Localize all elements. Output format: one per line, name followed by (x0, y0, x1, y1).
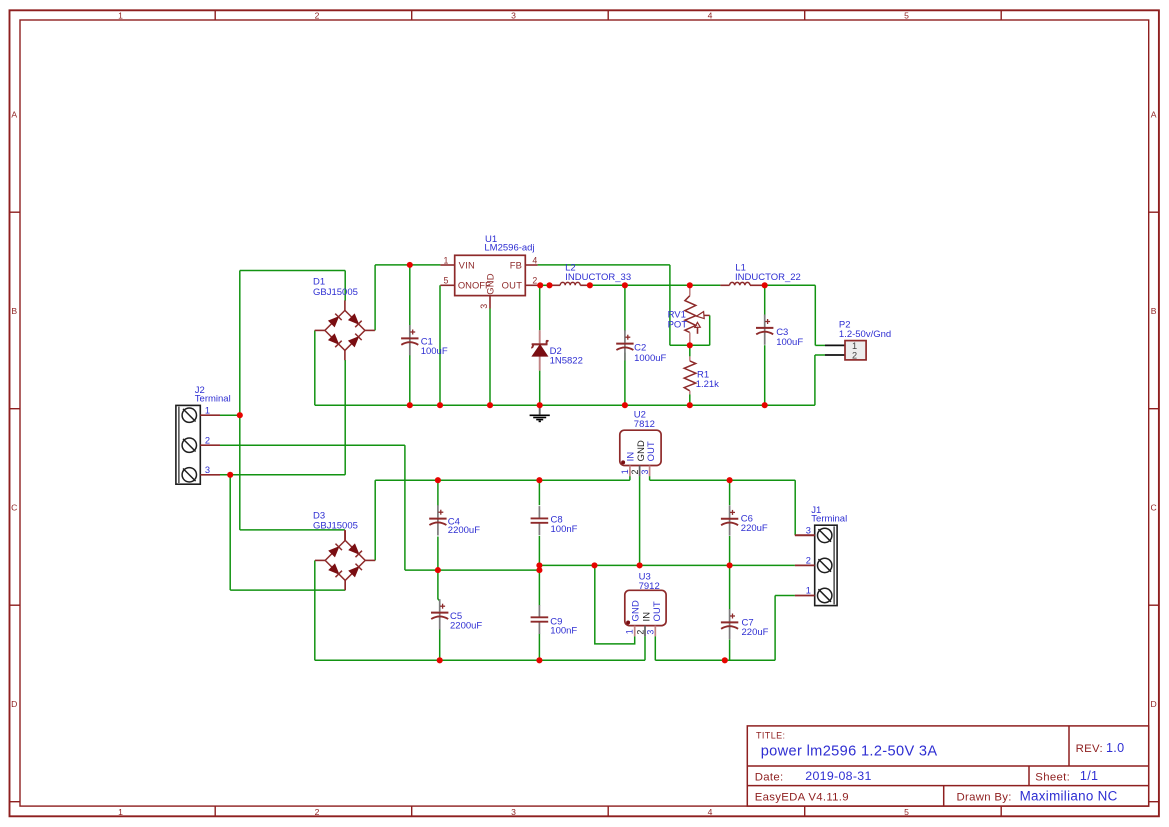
wire J2 pin1 to node (220, 414, 240, 416)
wire FB vertical (669, 265, 671, 345)
svg-text:OUT: OUT (645, 441, 656, 461)
wire C1 branch (409, 265, 411, 405)
svg-text:2: 2 (205, 435, 210, 445)
bridge D1 diode bottom-left (329, 334, 339, 344)
bridge D1 diode top-left (329, 317, 339, 327)
regulator U2 pin 2 stub (639, 466, 641, 477)
svg-text:1/1: 1/1 (1080, 769, 1098, 783)
title block frame (747, 726, 1148, 806)
svg-text:100uF: 100uF (421, 346, 448, 357)
capacitor C1 plates (401, 337, 418, 339)
wire AC2 branch down (229, 475, 231, 590)
capacitor C9 plates (531, 616, 549, 618)
capacitor C6 pins (729, 505, 731, 518)
wire AC1 run to D3 top (240, 529, 345, 531)
connector J2 screw 3 (182, 468, 196, 482)
wire C6 branch (729, 480, 731, 505)
wire D3 minus down (314, 560, 316, 660)
connector J1 pin stub redraw pin3 (795, 534, 815, 536)
wire U2 pin2 ground drop (639, 476, 641, 565)
svg-text:Terminal: Terminal (195, 394, 231, 405)
capacitor C5 pins (439, 599, 441, 612)
svg-text:100uF: 100uF (776, 337, 803, 348)
svg-text:POT: POT (668, 319, 688, 330)
svg-text:4: 4 (532, 255, 537, 265)
junction dot pot bottom node (687, 342, 693, 348)
wire negative rail right segment (655, 659, 775, 661)
resistor R1 upper pin (689, 356, 691, 361)
wire AC1 vertical bus (239, 271, 241, 530)
wire OUT switch node (538, 284, 550, 286)
svg-text:1: 1 (625, 629, 635, 634)
capacitor C2 pins (624, 330, 626, 343)
bridge D1 diode top-right (349, 314, 359, 324)
svg-text:A: A (1151, 109, 1157, 119)
wire FB feedback run (538, 264, 670, 266)
svg-text:5: 5 (443, 275, 448, 285)
wire VIN rail (375, 264, 440, 266)
wire U3 pin1 ground loop (595, 565, 635, 644)
wire U1 GND pin3 to ground (489, 309, 491, 406)
bridge D3 diode top-left (329, 547, 339, 557)
connector J1 body (815, 525, 837, 605)
svg-text:3: 3 (205, 465, 210, 475)
wire +12V down to J1 pin3 (794, 480, 796, 535)
capacitor C7 plates (721, 621, 738, 623)
svg-text:GBJ15005: GBJ15005 (313, 287, 358, 298)
regulator U2 pin 3 stub (649, 466, 651, 477)
wire C3 branch lower (764, 345, 766, 405)
svg-text:B: B (1151, 306, 1157, 316)
svg-text:2: 2 (806, 556, 811, 566)
svg-text:D: D (11, 699, 17, 709)
bridge D3 diode bottom-right (349, 567, 359, 577)
sheet zone column numbers bottom (118, 807, 909, 817)
wire J1 pin1 riser (774, 596, 776, 661)
junction dots output switch node (537, 282, 543, 288)
potentiometer RV1 wiper arrow (704, 314, 710, 316)
connector J2 pin 2 stub (200, 444, 220, 446)
svg-text:Drawn By:: Drawn By: (957, 792, 1012, 804)
U1 pin 3 stub (489, 296, 491, 309)
svg-text:IN: IN (640, 612, 651, 622)
IC U1 LM2596 body (455, 255, 526, 295)
wire U3 pin2 to negative rail (644, 636, 646, 660)
junction dots ground rail (407, 402, 413, 408)
sheet zone column numbers top (118, 11, 909, 21)
capacitor C3 pins (764, 315, 766, 328)
junction dot J2 pin1 node (237, 412, 243, 418)
wire J2 pin2 drop to 0V rail (404, 445, 406, 570)
capacitor C4 plus sign (438, 511, 443, 513)
wire 0V rail right segment (539, 564, 795, 566)
wire C5 branch with jog (438, 570, 440, 602)
wire U3 pin3 down (654, 636, 656, 660)
connector J2 pin 1 stub (200, 414, 220, 416)
capacitor C8 plates (531, 517, 549, 519)
bridge D1 diode bottom-right (349, 337, 359, 347)
svg-text:Sheet:: Sheet: (1035, 771, 1070, 783)
svg-text:INDUCTOR_33: INDUCTOR_33 (565, 272, 631, 283)
svg-text:2: 2 (532, 275, 537, 285)
svg-text:1: 1 (118, 807, 123, 817)
wire D2 branch lower (539, 371, 541, 406)
svg-text:1: 1 (620, 469, 630, 474)
capacitor C7 plus sign (730, 615, 735, 617)
svg-text:GND: GND (629, 600, 640, 621)
connector P2 pin lines (825, 344, 845, 346)
potentiometer RV1 adjust arrow (697, 327, 699, 334)
svg-text:5: 5 (904, 807, 909, 817)
wire bend into U2 pin1 (629, 476, 631, 480)
svg-text:FB: FB (510, 259, 522, 270)
diode D2 schottky cathode bar (531, 341, 548, 348)
svg-text:OUT: OUT (502, 280, 523, 291)
capacitor C2 plates (616, 343, 633, 345)
wire C3 branch upper (764, 285, 766, 315)
U1 pin 5 stub (440, 284, 454, 286)
capacitor C9 pins (538, 605, 540, 617)
regulator U3 body (625, 590, 666, 625)
connector J2 screw 1 (182, 408, 196, 422)
svg-text:2019-08-31: 2019-08-31 (805, 769, 871, 783)
wire C7 branch (729, 565, 731, 609)
svg-text:1: 1 (118, 11, 123, 21)
svg-text:1: 1 (205, 405, 210, 415)
svg-text:3: 3 (511, 11, 516, 21)
svg-text:Maximiliano NC: Maximiliano NC (1020, 789, 1118, 804)
wire into D1 top pin (344, 271, 346, 301)
junction dots negative rail (437, 657, 443, 663)
connector J2 screw 2 (182, 438, 196, 452)
svg-text:Date:: Date: (755, 771, 784, 783)
wire positive rail left segment (375, 479, 630, 481)
svg-text:2200uF: 2200uF (448, 525, 480, 536)
svg-text:2: 2 (852, 350, 857, 360)
svg-text:EasyEDA V4.11.9: EasyEDA V4.11.9 (755, 792, 849, 804)
bridge D3 top pin wire stub (344, 530, 346, 541)
wire pot wiper loop (709, 315, 711, 345)
capacitor C3 plus sign (765, 321, 770, 323)
svg-text:7912: 7912 (639, 581, 660, 592)
svg-text:4: 4 (708, 807, 713, 817)
capacitor C8 pins (538, 506, 540, 518)
sheet zone row letters (11, 109, 1157, 709)
regulator U3 pin1 marker (626, 621, 630, 625)
bridge rectifier D3 body (325, 540, 365, 580)
resistor R1 lower pin (689, 391, 691, 395)
svg-text:220uF: 220uF (742, 627, 769, 638)
svg-text:TITLE:: TITLE: (756, 731, 785, 741)
svg-text:1.0: 1.0 (1106, 741, 1124, 755)
wire D1 minus to ground rail (314, 330, 316, 405)
svg-text:B: B (11, 306, 17, 316)
diode D2 body (532, 345, 547, 356)
bridge D3 diode top-right (349, 544, 359, 554)
wire 0V rail left segment (405, 569, 540, 571)
ground symbol (539, 405, 541, 414)
svg-text:100nF: 100nF (550, 625, 577, 636)
capacitor C2 plus sign (625, 336, 630, 338)
wire negative rail left segment (315, 659, 645, 661)
svg-text:C2: C2 (634, 343, 646, 354)
svg-text:1: 1 (443, 255, 448, 265)
junction dot J2 pin3 node (227, 472, 233, 478)
wire AC2 run to D3 bottom (230, 589, 345, 591)
svg-text:2: 2 (315, 11, 320, 21)
inductor L1 pin stubs (720, 284, 729, 286)
wire C8 branch (538, 480, 540, 505)
connector P2 body (845, 341, 866, 360)
connector J1 pin 1 stub (795, 595, 815, 597)
U1 pin 4 stub (525, 264, 537, 266)
wire RV1 top branch (689, 285, 691, 295)
junction dots 0V rail (435, 567, 441, 573)
svg-text:7812: 7812 (634, 419, 655, 430)
svg-text:1: 1 (852, 341, 857, 351)
svg-text:D: D (1150, 699, 1156, 709)
potentiometer RV1 lower pin (689, 333, 691, 346)
wire J2 pin2 run (220, 444, 405, 446)
connector J2 body (176, 405, 200, 484)
svg-text:1N5822: 1N5822 (550, 355, 583, 366)
wire D1 plus up to VIN rail (374, 265, 376, 331)
regulator U2 body (620, 430, 661, 465)
potentiometer RV1 element (685, 296, 696, 333)
capacitor C1 pins (409, 325, 411, 338)
wire output rail down to P2 pin1 (814, 285, 816, 345)
svg-text:220uF: 220uF (741, 523, 768, 534)
wire R1 bottom to ground (689, 395, 691, 406)
regulator U2 pin 1 stub (629, 466, 631, 477)
svg-text:3: 3 (806, 526, 811, 536)
regulator U3 pin 3 stub (654, 626, 656, 637)
regulator U3 pin 2 stub (644, 626, 646, 637)
svg-text:INDUCTOR_22: INDUCTOR_22 (735, 272, 801, 283)
junction dots VIN rail (407, 262, 413, 268)
wire C2 branch upper (624, 285, 626, 331)
svg-text:100nF: 100nF (551, 524, 578, 535)
wire D1 bottom to AC2 row (344, 360, 346, 475)
regulator U2 pin1 marker (621, 460, 625, 464)
connector J2 pin 3 stub (200, 474, 220, 476)
svg-text:REV:: REV: (1076, 743, 1103, 755)
wire ground rail top circuit (315, 404, 815, 406)
capacitor C5 plates (431, 612, 448, 614)
junction dots positive rail (435, 477, 441, 483)
capacitor C7 pins (729, 609, 731, 622)
svg-text:3: 3 (640, 470, 650, 475)
bridge rectifier D1 body (325, 310, 365, 350)
svg-text:1: 1 (806, 586, 811, 596)
resistor R1 element (684, 361, 696, 391)
capacitor C1 plus sign (410, 331, 415, 333)
svg-text:3: 3 (479, 304, 489, 309)
svg-text:LM2596-adj: LM2596-adj (484, 243, 534, 254)
inductor L2 pin stubs (550, 284, 561, 286)
connector J1 screw 1 (818, 528, 832, 542)
wire C4 branch (437, 480, 439, 505)
wire L2 to output rail (590, 284, 721, 286)
capacitor C5 plus sign (440, 605, 445, 607)
wire P2 pin2 to ground rail (815, 354, 825, 356)
svg-text:C: C (11, 502, 17, 512)
bridge D3 bottom pin wire stub (344, 580, 346, 590)
svg-text:1.21k: 1.21k (696, 379, 719, 390)
svg-text:VIN: VIN (459, 259, 475, 270)
svg-text:Terminal: Terminal (811, 514, 847, 525)
connector J1 pin 2 stub (795, 564, 815, 566)
capacitor C6 plus sign (730, 511, 735, 513)
svg-text:3: 3 (646, 630, 656, 635)
capacitor C4 pins (437, 505, 439, 518)
wire C2 branch lower (624, 353, 626, 406)
inductor L1 coil (730, 282, 750, 285)
svg-text:OUT: OUT (651, 601, 662, 621)
wire R1 top link (689, 345, 691, 356)
bridge D3 diode bottom-left (329, 564, 339, 574)
diode D2 pin stubs (539, 330, 541, 343)
wire D3 plus riser (374, 480, 376, 560)
connector J1 screw 3 (818, 588, 832, 602)
svg-text:4: 4 (708, 11, 713, 21)
svg-text:1.2-50v/Gnd: 1.2-50v/Gnd (839, 329, 891, 340)
capacitor C4 plates (429, 518, 446, 520)
wire FB to pot bottom (670, 344, 710, 346)
capacitor C3 plates (756, 327, 773, 329)
svg-text:GND: GND (485, 273, 496, 295)
svg-text:A: A (11, 109, 17, 119)
svg-text:1000uF: 1000uF (634, 353, 666, 364)
wire ONOFF pin5 to ground (439, 285, 441, 405)
wire AC1 top run to D1 (240, 270, 345, 272)
svg-text:power lm2596 1.2-50V 3A: power lm2596 1.2-50V 3A (761, 744, 938, 760)
svg-text:2: 2 (315, 807, 320, 817)
svg-text:3: 3 (511, 807, 516, 817)
inductor L2 coil (560, 282, 580, 285)
svg-text:GBJ15005: GBJ15005 (313, 521, 358, 532)
svg-text:2: 2 (630, 470, 640, 475)
wire C9 branch (538, 570, 540, 605)
regulator U3 pin 1 stub (634, 626, 636, 637)
capacitor C6 plates (721, 518, 738, 520)
svg-text:2200uF: 2200uF (450, 620, 482, 631)
connector J1 pin 3 stub (795, 534, 815, 536)
svg-text:2: 2 (635, 630, 645, 635)
svg-text:5: 5 (904, 11, 909, 21)
U1 pin 2 stub (525, 284, 537, 286)
connector J1 screw 2 (818, 558, 832, 572)
wire positive rail right segment U2 pin3 to corner (649, 476, 651, 480)
U1 pin 1 stub (440, 264, 454, 266)
wire J2 pin3 AC2 row (220, 474, 345, 476)
wire D2 branch upper (539, 285, 541, 330)
wire output rail after L1 (765, 284, 816, 286)
svg-text:C: C (1150, 502, 1156, 512)
svg-text:IN: IN (625, 452, 636, 462)
